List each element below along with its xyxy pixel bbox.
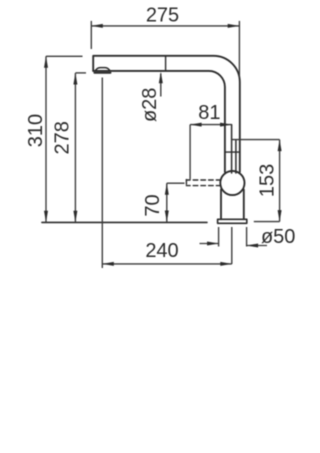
arrowhead o28 up (159, 72, 163, 84)
arrowhead 81 left (190, 123, 202, 127)
dim 153 line (279, 140, 281, 222)
svg-text:310: 310 (25, 114, 47, 147)
dim 310 top tick (46, 55, 83, 57)
arrowhead o50 left-pointing (247, 244, 259, 248)
lower tube (221, 190, 244, 220)
dim o50 left arrow line (200, 243, 219, 245)
arrowhead 278 down (73, 211, 77, 223)
arrowhead 70 up (165, 183, 169, 195)
svg-text:153: 153 (257, 164, 279, 197)
dim 275 left extension (90, 21, 92, 49)
svg-text:275: 275 (146, 5, 179, 27)
arrowhead 81 right (220, 123, 232, 127)
dim 275 right extension (238, 21, 240, 78)
arrowhead o50 right-pointing (207, 242, 219, 246)
svg-text:240: 240 (145, 240, 178, 262)
aerator dome (95, 68, 110, 71)
arrowhead 240 right (220, 262, 232, 266)
dim 70 top tick (167, 182, 185, 184)
arrowhead 275 left (91, 24, 103, 28)
svg-text:ø50: ø50 (261, 226, 295, 248)
dim 275 line (91, 25, 239, 27)
svg-text:70: 70 (142, 194, 164, 216)
dim 240 line (102, 263, 232, 265)
arrowhead 275 right (228, 24, 240, 28)
ball joint (220, 171, 244, 195)
dim 240 left extension (101, 78, 103, 269)
svg-text:ø28: ø28 (139, 88, 161, 122)
svg-text:81: 81 (198, 102, 220, 124)
dashed lever (swung position) (186, 180, 221, 186)
body seam (225, 151, 240, 153)
dim o50 right extension (246, 227, 248, 247)
deck line (42, 221, 207, 223)
spout seam (165, 57, 167, 71)
lever bar (232, 125, 236, 173)
arrowhead 240 left (102, 262, 114, 266)
faucet spout outer contour (93, 56, 240, 172)
aerator lip (94, 72, 110, 74)
arrowhead 310 up (44, 56, 48, 68)
dim 278 line (74, 73, 76, 222)
dim 278 top tick (75, 72, 86, 74)
arrowhead 278 up (73, 73, 77, 85)
dim o28 leader (160, 74, 162, 97)
faucet spout inner contour (93, 71, 225, 172)
dim 70 line (166, 183, 168, 222)
dim 81 left extension (189, 125, 191, 180)
faucet axis extension (231, 227, 233, 264)
base flange (218, 219, 247, 223)
dim 310 line (45, 56, 47, 222)
dim 153 bottom tick (254, 221, 280, 223)
dim o50 right arrow line (247, 245, 267, 247)
arrowhead 153 up (278, 140, 282, 152)
arrowhead 310 down (44, 211, 48, 223)
dim 153 top leader (232, 139, 280, 141)
arrowhead 153 down (278, 210, 282, 222)
dim o50 left extension (218, 227, 220, 247)
arrowhead 70 down (165, 211, 169, 223)
svg-text:278: 278 (51, 121, 73, 154)
dim 81 line (190, 124, 232, 126)
